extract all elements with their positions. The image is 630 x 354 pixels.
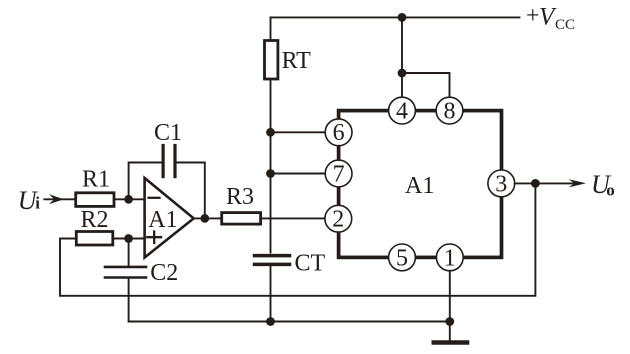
- op-amp A1: [145, 178, 194, 258]
- pin 8: [436, 97, 463, 124]
- svg-text:5: 5: [396, 245, 408, 271]
- node junction pin7 tap: [266, 169, 275, 178]
- wire input lead: [44, 198, 75, 200]
- pin 5: [389, 244, 416, 271]
- node junction op-amp output: [200, 214, 209, 223]
- svg-text:+: +: [526, 3, 540, 29]
- wire R2 to op-amp noninverting input: [113, 238, 145, 240]
- svg-text:CT: CT: [295, 251, 326, 277]
- resistor R3: [222, 213, 261, 225]
- wire pin 1 to ground: [449, 271, 451, 341]
- op-amp plus sign: [147, 232, 161, 244]
- pin 6: [325, 119, 352, 146]
- pin 2: [325, 205, 352, 232]
- svg-text:A1: A1: [405, 173, 434, 199]
- svg-text:3: 3: [495, 171, 507, 197]
- wire RT top lead: [270, 17, 272, 40]
- capacitor CT: [255, 256, 290, 265]
- wire R3 to pin 2: [261, 217, 326, 219]
- svg-text:C2: C2: [150, 260, 178, 286]
- pin 3: [488, 170, 515, 197]
- wire CT bottom lead: [270, 266, 272, 322]
- svg-text:1: 1: [444, 245, 456, 271]
- svg-text:2: 2: [332, 207, 344, 233]
- resistor R1: [76, 193, 114, 207]
- label Ui: [18, 186, 41, 215]
- svg-text:RT: RT: [282, 48, 312, 74]
- resistor RT: [265, 41, 278, 80]
- wire op-amp output to R3: [194, 217, 222, 219]
- wire top supply rail: [271, 16, 520, 18]
- wire C1 right branch to output node: [177, 163, 205, 219]
- svg-text:6: 6: [333, 120, 345, 146]
- label Uo: [591, 170, 615, 200]
- svg-text:CC: CC: [555, 17, 575, 33]
- output arrowhead: [569, 179, 586, 187]
- svg-text:R2: R2: [81, 207, 109, 233]
- resistor R2: [76, 232, 113, 246]
- svg-text:4: 4: [396, 99, 408, 125]
- svg-text:A1: A1: [148, 207, 177, 233]
- wire R1 to op-amp inverting input: [114, 198, 145, 200]
- wire pin6 to tap: [271, 131, 327, 133]
- svg-text:i: i: [35, 194, 40, 213]
- IC A1 box: [339, 111, 502, 258]
- node junction R2 / C2: [124, 234, 133, 243]
- capacitor C2: [105, 267, 146, 278]
- svg-text:R1: R1: [82, 167, 110, 193]
- node junction R1 output / C1: [124, 195, 133, 204]
- pin 7: [325, 160, 352, 187]
- input arrowhead: [49, 194, 64, 204]
- ground: [434, 340, 467, 344]
- node junction on top rail: [398, 13, 407, 22]
- svg-text:o: o: [606, 181, 615, 200]
- pin 4: [389, 97, 416, 124]
- svg-text:C1: C1: [154, 120, 182, 146]
- wire C2 bottom lead: [128, 279, 130, 322]
- wire pin 3 to output: [515, 182, 576, 184]
- node junction pin6 tap: [266, 128, 275, 137]
- wire from top rail down to pin 4: [401, 17, 403, 97]
- svg-text:7: 7: [333, 161, 345, 187]
- wire pin 8 to tee: [402, 73, 450, 97]
- wire RT bottom lead down to CT: [270, 79, 272, 253]
- label +Vcc: [526, 3, 575, 33]
- capacitor C1: [163, 146, 175, 177]
- pin 1: [436, 244, 463, 271]
- svg-text:R3: R3: [226, 184, 254, 210]
- wire pin7 to tap: [271, 173, 327, 175]
- wire feedback loop from R2 left around bottom to output node: [60, 183, 535, 295]
- wire bottom ground bus: [129, 321, 450, 323]
- wire C1 left branch: [129, 163, 162, 200]
- wire C2 top lead: [128, 239, 130, 266]
- node junction output: [531, 179, 540, 188]
- node junction ground bus: [445, 317, 454, 326]
- node junction CT on ground bus: [266, 317, 275, 326]
- node junction pin4/pin8 tee: [398, 69, 407, 78]
- svg-text:8: 8: [444, 99, 456, 125]
- op-amp minus sign: [149, 197, 160, 199]
